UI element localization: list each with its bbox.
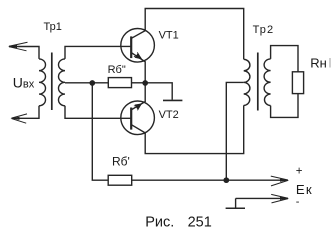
svg-text:Rб": Rб" bbox=[108, 64, 126, 76]
svg-text:Тр2: Тр2 bbox=[253, 24, 275, 36]
svg-text:Тр1: Тр1 bbox=[44, 21, 62, 33]
svg-text:251: 251 bbox=[188, 214, 212, 230]
svg-text:Rн: Rн bbox=[310, 55, 327, 70]
svg-text:+: + bbox=[296, 165, 303, 177]
svg-text:-: - bbox=[296, 196, 300, 208]
svg-text:Рис.: Рис. bbox=[145, 214, 174, 230]
svg-text:VT2: VT2 bbox=[159, 109, 179, 121]
svg-text:Rб': Rб' bbox=[112, 155, 130, 169]
svg-text:VT1: VT1 bbox=[159, 29, 179, 41]
svg-text:Ек: Ек bbox=[296, 182, 313, 197]
